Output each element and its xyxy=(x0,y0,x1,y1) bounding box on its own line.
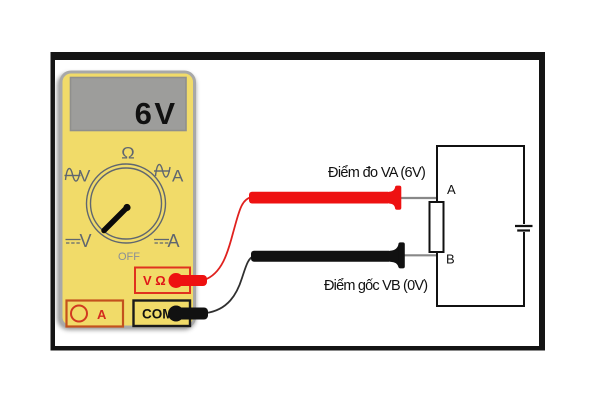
LCD display xyxy=(71,78,187,131)
black probe body xyxy=(251,242,405,268)
svg-text:A: A xyxy=(168,231,180,251)
svg-text:A: A xyxy=(447,182,456,197)
dial needle xyxy=(104,204,131,231)
rotary dial outer ring xyxy=(87,164,166,243)
dial label AC A xyxy=(154,164,170,177)
svg-text:Điểm đo VA (6V): Điểm đo VA (6V) xyxy=(328,165,425,181)
V-ohm jack box xyxy=(135,268,190,294)
battery cell xyxy=(515,224,533,232)
rotary dial inner ring xyxy=(91,168,162,239)
circuit loop wire xyxy=(437,146,524,306)
svg-text:OFF: OFF xyxy=(118,251,140,263)
svg-text:V Ω: V Ω xyxy=(143,273,166,288)
svg-text:Điểm gốc VB (0V): Điểm gốc VB (0V) xyxy=(324,278,427,294)
black test lead wire xyxy=(206,256,254,313)
black banana plug xyxy=(168,306,208,322)
COM jack box xyxy=(134,301,191,327)
dial label AC V xyxy=(65,168,81,181)
multimeter body shadow xyxy=(57,73,196,330)
svg-text:A: A xyxy=(97,307,107,322)
red probe tip lead to node A xyxy=(399,197,437,199)
dial label DC V xyxy=(66,240,81,244)
svg-text:Ω: Ω xyxy=(121,145,135,163)
resistor R between A and B xyxy=(430,202,444,252)
red probe body xyxy=(249,186,401,210)
multimeter body xyxy=(61,72,195,327)
svg-text:A: A xyxy=(172,167,184,186)
red test lead wire xyxy=(204,197,252,280)
svg-text:V: V xyxy=(80,231,92,251)
black probe tip lead to node B xyxy=(402,254,437,256)
current jack box A xyxy=(67,301,124,327)
svg-text:B: B xyxy=(446,252,455,267)
svg-text:V: V xyxy=(79,167,91,186)
red banana plug xyxy=(169,273,208,288)
svg-text:6V: 6V xyxy=(135,96,178,131)
border frame xyxy=(51,52,546,351)
current jack circle xyxy=(71,306,87,322)
dial label DC A xyxy=(154,240,169,244)
